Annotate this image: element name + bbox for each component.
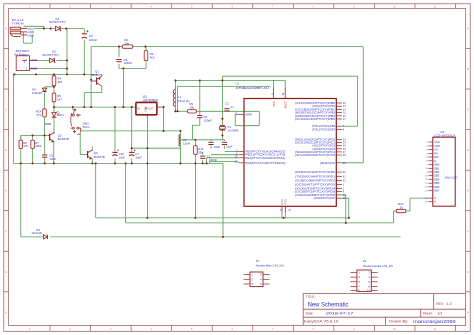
wire C8 drop [192, 81, 199, 140]
wire C4 leg [118, 47, 120, 69]
wire mid drop A [125, 163, 127, 223]
svg-text:27k: 27k [23, 144, 28, 148]
svg-text:OUT: OUT [148, 106, 154, 110]
svg-text:BC547B: BC547B [94, 155, 105, 159]
svg-text:C: C [467, 108, 469, 112]
regulator U3 LM7805 [136, 95, 161, 117]
wire Q3 gnd drop [95, 163, 97, 218]
wire C7 U3 L2 link [132, 147, 181, 149]
svg-text:DB2: DB2 [434, 170, 440, 174]
svg-text:(TXD0/OC4A/PTCXY)PD1: (TXD0/OC4A/PTCXY)PD1 [295, 174, 336, 178]
wire junction dots [13, 28, 350, 238]
wire R7 legs [32, 135, 34, 163]
wire MCU gnd pins down [282, 213, 285, 218]
svg-text:(AIN1/PTCXY)PD7: (AIN1/PTCXY)PD7 [313, 196, 335, 200]
wire Q2 emitter [53, 142, 55, 164]
wire battery VCC to D2 [37, 59, 50, 61]
switch DW2 [71, 109, 91, 135]
svg-text:Drawn By:: Drawn By: [389, 320, 409, 324]
svg-text:15uH (A): 15uH (A) [178, 99, 190, 103]
inductor L2 15uH [179, 135, 190, 146]
svg-text:10uF: 10uF [135, 156, 142, 160]
svg-text:(SCL0/ADC5/PTCXY)PC5: (SCL0/ADC5/PTCXY)PC5 [295, 153, 336, 157]
svg-text:100nF: 100nF [124, 61, 133, 65]
transistor Q1 BC857C [84, 69, 103, 107]
wire divider vertical to R5 node [90, 47, 92, 108]
svg-text:22pF: 22pF [226, 144, 233, 148]
svg-text:16x2 LCD: 16x2 LCD [445, 175, 458, 179]
LCD connector U2 LCD-16X2 [425, 130, 457, 206]
svg-text:H: H [5, 310, 7, 314]
diode D1 SCHOTTKY [49, 17, 66, 31]
svg-text:RS: RS [434, 151, 438, 155]
wire DW2 top stub [73, 107, 75, 110]
svg-text:15uH: 15uH [183, 142, 190, 146]
title block [303, 294, 466, 326]
wire bottom bus 3 GND [21, 236, 401, 238]
svg-text:DB7: DB7 [434, 189, 440, 193]
svg-text:A: A [467, 27, 469, 31]
wire RESET riser [342, 47, 363, 163]
svg-text:New Schematic: New Schematic [308, 302, 349, 308]
svg-text:LED1: LED1 [57, 113, 64, 117]
wire mid drop B [194, 163, 196, 218]
svg-text:1/1: 1/1 [437, 312, 442, 316]
svg-text:DB5: DB5 [434, 181, 440, 185]
resistor R9 10k [188, 102, 197, 113]
capacitor C3 22pF [208, 142, 220, 149]
battery BT1 9V [14, 49, 38, 70]
svg-text:Sheet:: Sheet: [423, 312, 433, 316]
svg-text:SCHOTTKY: SCHOTTKY [49, 20, 66, 24]
wire R4 D4 link [45, 86, 55, 88]
wire U3 OUT node [161, 107, 164, 131]
capacitor C8 100pF [197, 115, 212, 122]
wire AREF loop [223, 111, 260, 125]
wire R6 bottom [20, 148, 22, 163]
svg-text:TITLE:: TITLE: [306, 295, 316, 299]
diode D2 SCHOTTKY [42, 50, 59, 63]
svg-text:GND: GND [27, 33, 35, 37]
svg-text:C2: C2 [225, 102, 229, 106]
svg-text:(RESET)PC6: (RESET)PC6 [320, 161, 336, 165]
wire PD6 to bus [342, 195, 346, 223]
svg-text:10k: 10k [190, 106, 195, 110]
svg-text:330nF: 330nF [209, 158, 217, 162]
wire bottom bus 2 [126, 222, 394, 224]
svg-text:B: B [467, 67, 469, 71]
svg-text:DB0: DB0 [434, 163, 440, 167]
wire C1 stub [202, 152, 204, 163]
svg-text:AVCC: AVCC [284, 101, 288, 109]
svg-text:1k: 1k [400, 206, 404, 210]
svg-text:(XCK0/SCK0/PTCXY)PB5: (XCK0/SCK0/PTCXY)PB5 [295, 117, 336, 121]
wire top GND bus [13, 73, 98, 75]
svg-text:U1: U1 [236, 81, 240, 85]
wire DW2 to Q3 base [80, 132, 86, 155]
resistor R7 100k [31, 140, 42, 148]
wire D1 cathode to C9 node [62, 28, 85, 30]
wire C2 stub [226, 110, 228, 112]
wire Q3 emitter [91, 159, 93, 164]
resistor R6 27k [19, 140, 29, 148]
svg-text:D: D [467, 148, 469, 152]
capacitor C4 100nF [116, 58, 132, 65]
resistor R3 3k3 [144, 51, 155, 61]
wire C5 legs [44, 135, 46, 163]
svg-text:AREF: AREF [245, 113, 252, 117]
svg-text:1.0: 1.0 [447, 302, 452, 306]
wire D2 cathode to node V1 [56, 59, 67, 61]
capacitor C9 100uF [82, 30, 98, 42]
wire C7 leg [131, 107, 133, 163]
svg-text:DB6: DB6 [434, 185, 440, 189]
resistor R2 13k [122, 38, 133, 48]
svg-text:10: 10 [393, 327, 396, 331]
svg-text:Header-Male 2.54_2x3: Header-Male 2.54_2x3 [256, 264, 285, 267]
svg-text:G: G [467, 270, 469, 274]
svg-text:55cm: 55cm [83, 125, 91, 129]
transistor Q3 BC547B [86, 150, 105, 159]
svg-text:K: K [434, 200, 436, 204]
diode D3 1N4148 [31, 228, 47, 239]
LED LED1 3MM [45, 111, 64, 126]
svg-text:16.000M: 16.000M [227, 128, 239, 132]
wire C4R3 to U3 input net [122, 68, 124, 107]
svg-text:E: E [467, 189, 469, 193]
svg-text:EasyEDA V5.6.10: EasyEDA V5.6.10 [304, 320, 339, 324]
wire VCC jog [24, 26, 44, 28]
svg-text:(OC2B/INT1/PTCXY)PD3: (OC2B/INT1/PTCXY)PD3 [295, 183, 336, 187]
wire LED chain [53, 107, 55, 134]
svg-text:ATMEGA328P-AU: ATMEGA328P-AU [236, 86, 269, 90]
svg-text:BC547B: BC547B [58, 137, 69, 141]
svg-text:VCC: VCC [31, 58, 38, 62]
svg-text:2018-07-17: 2018-07-17 [326, 311, 355, 316]
diode D4 1N4148 [32, 87, 47, 95]
svg-text:100k: 100k [35, 144, 42, 148]
inductor L1 15uH [173, 89, 189, 106]
wire node V1 vertical [66, 29, 68, 75]
svg-text:1N4148: 1N4148 [32, 91, 43, 95]
svg-text:REV:: REV: [436, 302, 443, 306]
svg-text:Header-Female 2.54_2x5: Header-Female 2.54_2x5 [363, 265, 394, 268]
wire divider net long horizontal [91, 46, 363, 48]
svg-text:DB1: DB1 [434, 166, 440, 170]
svg-text:PE3(PTCXY/UADC7/T3/MOSI): PE3(PTCXY/UADC7/T3/MOSI) [245, 161, 285, 165]
wire L1 line [174, 80, 176, 111]
wire xtal branch [222, 75, 357, 77]
svg-text:C: C [5, 108, 7, 112]
wire XTAL1 riser [342, 76, 358, 126]
wire C4-R3 bottom link [119, 67, 146, 69]
svg-text:GND: GND [284, 199, 287, 205]
resistor R5 2k7 [52, 93, 62, 102]
svg-text:IN: IN [137, 106, 140, 110]
svg-text:VDD: VDD [434, 144, 440, 148]
svg-text:VCC: VCC [272, 101, 276, 107]
wire AVCC filter net [178, 87, 271, 112]
svg-text:GND: GND [145, 106, 148, 112]
resistor R4 3k3 [52, 76, 62, 86]
svg-text:G: G [5, 270, 7, 274]
wire R14 legs [44, 117, 46, 135]
svg-text:manoranjan2050: manoranjan2050 [413, 319, 456, 324]
wire R3 leg [145, 47, 147, 69]
svg-text:H1: H1 [363, 259, 367, 263]
svg-text:GND: GND [31, 67, 38, 71]
svg-text:H: H [467, 310, 469, 314]
wire VCC pin drop [273, 80, 275, 87]
wire L2 line [179, 131, 181, 164]
svg-text:P1: P1 [256, 259, 260, 263]
svg-text:100pF: 100pF [204, 119, 212, 123]
wire Q3 collector [91, 146, 93, 150]
resistor R15 1k [396, 202, 406, 213]
wire AVCC pin drop [284, 80, 286, 87]
crystal X1 16MHz [220, 125, 239, 132]
wire VCC rail top [175, 79, 285, 81]
MCU U1 ATMEGA328P-AU [235, 81, 347, 212]
svg-text:(RXD0/OC3A/PTCXY)PD0: (RXD0/OC3A/PTCXY)PD0 [295, 170, 336, 174]
svg-text:10nF: 10nF [49, 157, 56, 161]
wire R6 top [20, 135, 22, 140]
capacitor C10 10uF [112, 149, 125, 159]
svg-text:SCHOTTKY: SCHOTTKY [42, 53, 59, 57]
wire crystal vertical [221, 76, 223, 140]
wire D4 top [44, 87, 46, 109]
wire R4 chain [53, 74, 55, 107]
capacitor C1 330nF [200, 155, 217, 162]
wire VCC input to D1 [34, 28, 55, 30]
connector J1 DC-9-12 TYPE-M [10, 18, 35, 37]
svg-text:VO: VO [434, 148, 438, 152]
wire bottom bus 1 [96, 217, 349, 219]
wire C10 leg [114, 107, 116, 163]
wire pin rows left MCU [207, 152, 239, 164]
svg-text:VSS: VSS [434, 140, 440, 144]
svg-text:DB4: DB4 [434, 177, 440, 181]
svg-text:(OC3B/OC4B/INT0/PTCXY)PD2: (OC3B/OC4B/INT0/PTCXY)PD2 [295, 178, 336, 182]
capacitor C7 10uF [129, 149, 142, 159]
wire R5 bottom net to U3 IN [54, 106, 136, 108]
svg-text:RW: RW [434, 155, 439, 159]
wire mid drop C [222, 163, 224, 237]
svg-text:11: 11 [434, 327, 437, 331]
wire DC jack GND loop [23, 32, 32, 43]
svg-text:3MM: 3MM [45, 122, 52, 126]
wire 22pF stubs [211, 140, 225, 149]
svg-text:10uF: 10uF [119, 156, 126, 160]
svg-text:1N4148: 1N4148 [31, 231, 42, 235]
svg-text:11: 11 [434, 5, 437, 9]
resistor R14 47k [36, 109, 46, 117]
wire tank net [175, 110, 222, 112]
capacitor C6 22pF [222, 142, 233, 148]
wire U3 GND leg [146, 117, 148, 218]
wire base bus Q2 [21, 134, 48, 136]
header H1 Header-Female 2.54 2x5 [350, 259, 393, 293]
svg-text:DB3: DB3 [434, 174, 440, 178]
wire switch loop [81, 130, 181, 132]
svg-text:47k: 47k [37, 113, 42, 117]
transistor Q2 BC547B [48, 132, 69, 142]
svg-text:1n: 1n [230, 105, 234, 109]
svg-text:A: A [5, 27, 7, 31]
svg-text:22pF: 22pF [214, 145, 221, 149]
svg-text:PE2(PTCXY/ADC6/ICP3/SS1): PE2(PTCXY/ADC6/ICP3/SS1) [245, 156, 285, 160]
capacitor C2 1nF [224, 102, 234, 111]
svg-text:E: E [5, 189, 7, 193]
svg-text:3k3: 3k3 [57, 80, 62, 84]
svg-text:A: A [434, 196, 436, 200]
header P1 Header-Male 2.54 2x3 [244, 259, 285, 287]
svg-text:Date:: Date: [306, 312, 314, 316]
svg-text:TYPE-M: TYPE-M [12, 22, 24, 26]
wire xtal bus [180, 139, 224, 141]
resistor R10 33k [194, 146, 204, 155]
wire PD7 to bus [342, 198, 349, 218]
wire battery GND [37, 68, 67, 70]
wire left drop to bottom [20, 135, 22, 237]
wire left GND drop [12, 74, 14, 163]
wire R10 stubs [194, 140, 196, 164]
wire GND bus mid [13, 162, 223, 164]
wire C9 branch [83, 29, 85, 75]
wire R15 to LCD A [406, 198, 429, 211]
wire backlight net [394, 211, 397, 223]
svg-text:2k7: 2k7 [57, 97, 62, 101]
svg-text:33k: 33k [198, 150, 203, 154]
svg-text:10: 10 [393, 5, 396, 9]
capacitor C5 10nF [42, 153, 56, 161]
svg-text:D: D [5, 148, 7, 152]
svg-text:(XTAL2/TOSC2)PB7: (XTAL2/TOSC2)PB7 [312, 127, 336, 131]
svg-text:100uF: 100uF [89, 38, 98, 42]
svg-text:E: E [434, 159, 436, 163]
svg-text:3k3: 3k3 [150, 55, 155, 59]
svg-text:B: B [5, 67, 7, 71]
